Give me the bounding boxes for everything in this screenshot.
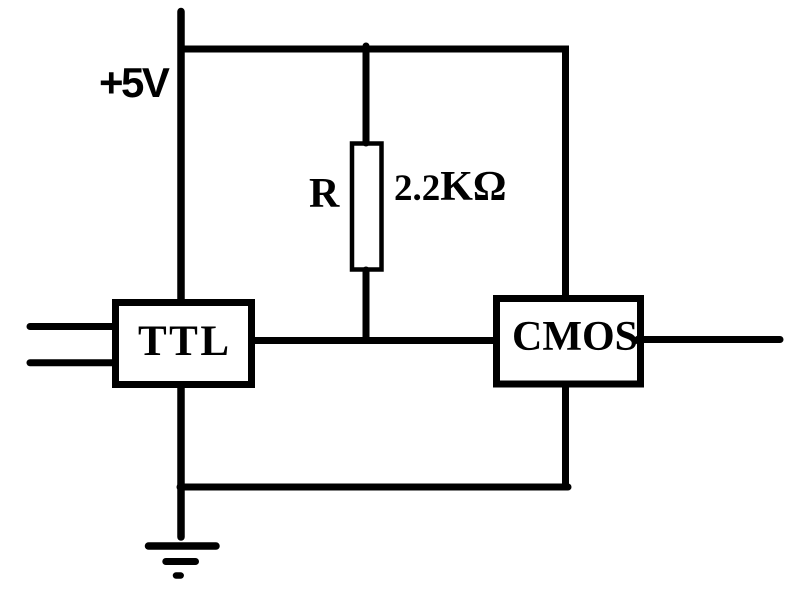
wire TTL to CMOS middle — [240, 337, 510, 344]
svg-text:TTL: TTL — [138, 318, 232, 365]
svg-text:2.2KΩ: 2.2KΩ — [394, 164, 507, 210]
wire TTL input stub lower — [30, 359, 115, 366]
wire top horizontal rail — [181, 46, 569, 53]
node CMOS output junction dot — [634, 336, 643, 345]
wire TTL input stub upper — [30, 323, 115, 330]
wire resistor bottom lead — [363, 270, 370, 340]
svg-text:R: R — [309, 171, 340, 217]
wire left vertical +5V rail — [177, 12, 185, 538]
resistor R1 body — [352, 144, 382, 270]
block U2 CMOS box — [497, 299, 641, 385]
wire CMOS output — [640, 336, 780, 343]
svg-text:+5V: +5V — [99, 59, 170, 106]
ground — [149, 542, 217, 550]
wire resistor top lead — [363, 46, 370, 143]
block U1 TTL box — [116, 303, 252, 385]
svg-text:CMOS: CMOS — [512, 314, 638, 360]
wire right vertical (top rail to CMOS to bottom wire) — [562, 49, 569, 487]
wire bottom return — [180, 484, 568, 491]
